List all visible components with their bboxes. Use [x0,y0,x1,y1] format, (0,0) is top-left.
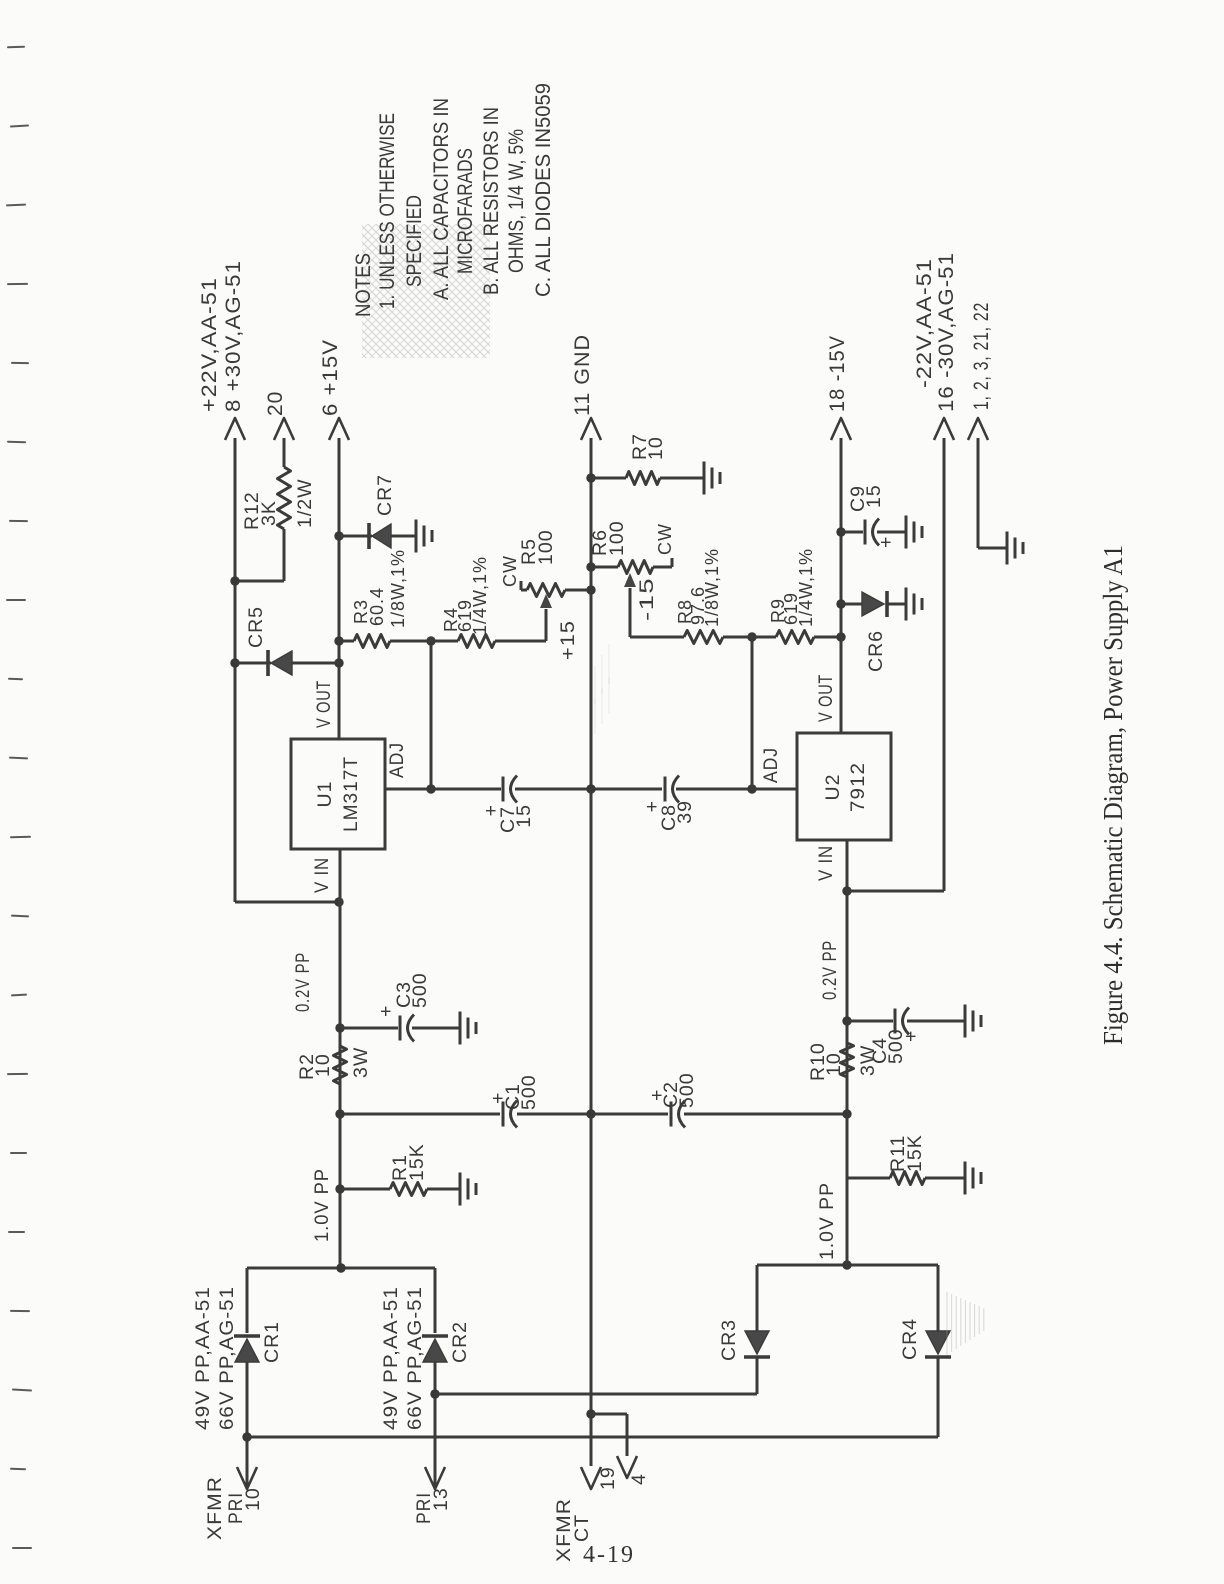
label +15 [557,620,579,660]
binder hole mark [7,283,28,286]
wire CR4 line [937,1265,940,1437]
svg-text:1/8W,1%: 1/8W,1% [388,549,408,628]
wire CR5 branch [235,662,339,665]
label R7 [629,433,667,460]
wire CR1-CR2 link [247,1267,435,1270]
wire CR2 to CR3 link [435,1393,757,1396]
node junction R1 [335,1184,344,1193]
svg-text:+15: +15 [557,620,579,660]
label C8 [641,800,696,831]
wire CR1 line [246,1268,249,1487]
label CR5 [245,606,267,648]
node junction R3R4 [426,636,435,645]
resistor R6 [618,561,653,574]
svg-text:16 -30V,AG-51: 16 -30V,AG-51 [935,252,958,412]
node junction C3 [335,1023,344,1032]
resistor R8 [684,631,723,644]
svg-text:CR2: CR2 [449,1321,471,1363]
op-amp U2 regulator box [797,733,891,840]
svg-text:-22V,AA-51: -22V,AA-51 [913,258,936,388]
svg-text:ADJ: ADJ [386,742,408,778]
label 20 [264,391,287,416]
svg-text:V IN: V IN [311,857,333,893]
label +22V,AA-51 [198,277,221,412]
svg-text:1. UNLESS OTHERWISE: 1. UNLESS OTHERWISE [376,113,399,309]
label C4 [869,1028,922,1064]
node junction C9 [836,527,845,536]
wire GND rail [590,438,593,1466]
svg-text:Figure 4.4. Schematic Diagram: Figure 4.4. Schematic Diagram, Power Sup… [1098,545,1128,1045]
label C3 [375,972,431,1017]
label note B line2 [505,129,528,273]
label R11 [887,1134,926,1172]
label -22V,AA-51 [913,258,936,388]
svg-text:0.2V PP: 0.2V PP [819,940,841,1000]
resistor R5 [527,584,565,597]
binder hole mark [7,46,25,49]
label NOTES title [352,253,375,317]
wire C1-C2 link [340,1113,847,1116]
resistor R4 [458,635,495,648]
svg-text:10: 10 [312,1053,334,1077]
terminal arrow PRI 10 [237,1467,257,1489]
svg-text:10: 10 [823,1052,845,1076]
svg-text:-15: -15 [636,577,658,621]
svg-text:19: 19 [597,1466,619,1490]
ground R11 [965,1162,981,1195]
label V OUT U2 [815,674,837,722]
svg-text:0.2V PP: 0.2V PP [292,952,314,1012]
node junction +22V/VIN link [334,897,343,906]
binder hole mark [8,678,23,681]
label R2 [296,1047,372,1080]
wire C3 branch [340,1027,460,1030]
binder hole mark [7,1073,28,1076]
svg-text:66V PP,AG-51: 66V PP,AG-51 [216,1286,238,1430]
label CR4 [899,1318,921,1360]
svg-text:15K: 15K [904,1134,926,1172]
node junction R5 GND [586,585,595,594]
ground R1 [460,1173,476,1206]
resistor R10 [841,1043,854,1077]
terminal arrow 20 [274,418,294,440]
scan streak artifact near CR4 [947,1292,984,1355]
wire CR3-CR4 link [757,1264,938,1267]
wire +15V V OUT rail [338,438,341,739]
diode CR6 [862,591,887,617]
svg-text:CW: CW [500,555,520,587]
label U2 [822,762,869,812]
svg-text:6 +15V: 6 +15V [319,339,342,416]
wire R3 leads [339,640,431,643]
capacitor C3 [400,1015,414,1042]
ground C9 [906,516,922,549]
node junction VIN2 corner [842,886,851,895]
binder hole mark [10,124,29,128]
wire -30V link [847,438,944,891]
svg-text:4: 4 [628,1473,650,1485]
svg-text:15: 15 [513,804,535,828]
svg-text:ADJ: ADJ [760,747,782,783]
wiper arrow R5 [540,594,552,608]
binder hole mark [10,836,31,839]
svg-text:U2: U2 [822,774,844,801]
resistor R7 [626,472,660,485]
binder hole mark [10,1468,26,1471]
svg-text:CR3: CR3 [718,1319,740,1361]
svg-text:+22V,AA-51: +22V,AA-51 [198,277,221,412]
label 11 GND [571,334,594,416]
label 8 +30V,AG-51 [222,260,245,412]
wire R6 wiper [630,588,684,637]
svg-text:1.0V PP: 1.0V PP [816,1182,838,1260]
terminal arrow 18 (-15V) [831,418,851,440]
capacitor C2 [671,1101,685,1128]
label 16 -30V,AG-51 [935,252,958,412]
terminal arrow 11 GND [581,418,601,440]
resistor R11 [890,1172,925,1185]
label -15 [636,577,658,621]
svg-text:CR4: CR4 [899,1318,921,1360]
label note A line2 [454,148,477,274]
svg-text:13: 13 [430,1487,452,1511]
resistor R12 [278,467,291,529]
wire tap 4 branch [591,1414,627,1456]
svg-text:1.0V PP: 1.0V PP [311,1168,333,1242]
svg-text:60.4: 60.4 [367,587,387,626]
ground C4 [965,1005,981,1038]
svg-text:3W: 3W [350,1047,372,1078]
binder hole mark [7,441,26,444]
svg-text:39: 39 [674,800,696,824]
svg-text:CR1: CR1 [261,1321,283,1363]
svg-text:500: 500 [409,972,431,1008]
label 18 -15V [826,335,849,412]
svg-text:OHMS, 1/4 W, 5%: OHMS, 1/4 W, 5% [505,129,528,273]
binder hole mark [12,1547,32,1549]
label XFMR CT 19 [553,1466,619,1562]
wire CR7 branch [339,535,416,538]
wire -V IN rail [846,840,849,1265]
label note B line1 [480,107,503,295]
svg-text:V IN: V IN [815,845,837,881]
op-amp U1 regulator box [291,739,385,849]
svg-text:C. ALL DIODES IN5059: C. ALL DIODES IN5059 [532,83,555,297]
svg-text:MICROFARADS: MICROFARADS [454,148,477,274]
terminal arrow XFMR CT 19 [581,1467,601,1489]
terminal arrow 16 (-30V) [934,418,954,440]
terminal arrow 6 (+15V) [329,418,349,440]
svg-text:49V PP,AA-51: 49V PP,AA-51 [192,1286,214,1430]
wire R8 lead [723,636,752,639]
svg-text:1/4W,1%: 1/4W,1% [470,556,490,635]
label CW R6 [655,523,675,555]
svg-text:3K: 3K [258,500,280,526]
node junction C4 [842,1016,851,1025]
node junction -rail/CR3-CR4 link [842,1260,851,1269]
label 0.2V PP positive [292,952,314,1012]
wire CR1 to CR4 link [247,1436,938,1439]
node junction ADJ2 [747,784,756,793]
wire R5 wiper [545,609,548,641]
ground terminal 1-22 [1007,532,1023,565]
svg-text:CR7: CR7 [374,474,396,516]
wire R5 leads [521,589,591,592]
label CR2 [449,1321,471,1363]
label R4 [441,556,490,635]
binder hole mark [8,1231,25,1233]
wire R12 to +22V rail [235,529,284,581]
svg-text:10: 10 [242,1487,264,1511]
wire U2 ADJ line [752,788,797,791]
label R8 [675,548,722,627]
node junction C2 bottom [842,1109,851,1118]
node junction R8R9 [747,632,756,641]
svg-text:+: + [875,536,897,548]
hatched patch behind notes [362,224,490,358]
label ADJ U2 [760,747,782,783]
diode CR3 [744,1331,770,1357]
wire CR2 line [434,1268,437,1487]
svg-text:XFMR: XFMR [204,1476,226,1540]
svg-text:1/8W,1%: 1/8W,1% [702,548,722,627]
wire ADJ2 to R8R9 [751,637,754,789]
node junction CR7 [334,531,343,540]
svg-text:V OUT: V OUT [815,674,837,722]
ground CR6 [906,588,922,621]
binder hole mark [12,1388,32,1391]
wire CR3 line [756,1265,759,1394]
svg-text:1, 2, 3, 21, 22: 1, 2, 3, 21, 22 [970,302,993,410]
terminal arrow 4 [617,1456,637,1478]
wire terminal 20 lead [283,438,286,467]
label 1.0V PP negative [816,1182,838,1260]
label R1 [389,1143,428,1181]
node junction ADJ1 [426,784,435,793]
wire R6 CW tick [671,558,674,567]
label CW R5 [500,555,520,587]
svg-text:1/4W,1%: 1/4W,1% [796,548,816,627]
node junction CR2/CR3 link [430,1389,439,1398]
wire R7 branch [591,477,704,480]
label V IN U2 [815,845,837,881]
node junction C7C8 GND [586,784,595,793]
node junction R12/+22V [230,576,239,585]
label C1 [487,1074,540,1110]
label 0.2V PP negative [819,940,841,1000]
svg-text:V OUT: V OUT [313,680,335,728]
binder hole mark [11,362,29,365]
capacitor C8 [665,776,679,803]
label PRI 13 [413,1487,452,1524]
svg-text:18 -15V: 18 -15V [826,335,849,412]
label R5 [518,529,557,565]
label PRI 10 [225,1487,264,1524]
svg-text:CW: CW [655,523,675,555]
svg-text:11 GND: 11 GND [571,334,594,416]
ground R7 [704,462,720,495]
svg-text:66V PP,AG-51: 66V PP,AG-51 [404,1286,426,1430]
wire R6 leads [591,566,672,569]
resistor R1 [390,1183,427,1196]
label C7 [480,804,535,833]
wire -15V rail [840,438,843,733]
label 1.0V PP positive [311,1168,333,1242]
svg-text:49V PP,AA-51: 49V PP,AA-51 [380,1286,402,1430]
wire R9 leads [752,636,841,639]
svg-text:20: 20 [264,391,287,416]
wire node A [430,641,433,789]
svg-text:LM317T: LM317T [340,756,362,832]
label V IN U1 [311,857,333,893]
svg-text:7912: 7912 [847,762,869,812]
label ADJ U1 [386,742,408,778]
node junction R9 rail [836,632,845,641]
node junction CT/tap4 [586,1409,595,1418]
svg-text:CR6: CR6 [865,630,887,672]
wire R11 branch [847,1177,965,1180]
svg-text:A. ALL CAPACITORS IN: A. ALL CAPACITORS IN [430,98,453,300]
page number [583,1542,635,1569]
terminal arrow 8 (+22V) [225,418,245,440]
node junction C1C2 mid GND [586,1109,595,1118]
diode CR2 [422,1336,448,1362]
label winding voltage CR2 [380,1286,426,1430]
label C2 [646,1072,698,1108]
label note 1 line2 [403,195,426,287]
label R10 [807,1042,879,1081]
svg-text:+: + [900,1030,922,1042]
node junction R6 GND [586,562,595,571]
node junction R3 top [334,636,343,645]
label CR7 [374,474,396,516]
diode CR1 [234,1336,260,1362]
svg-text:15K: 15K [406,1143,428,1181]
label C9 [847,484,897,548]
binder hole mark [10,1152,27,1155]
binder hole mark [10,1310,30,1313]
label note C [532,83,555,297]
ground CR7 [416,520,432,553]
svg-text:500: 500 [676,1072,698,1108]
diode CR7 [369,523,391,549]
svg-text:NOTES: NOTES [352,253,375,317]
wire C9 branch [841,531,906,534]
svg-text:CR5: CR5 [245,606,267,648]
capacitor C4 [895,1008,909,1035]
label figure caption [1098,545,1128,1045]
svg-text:8 +30V,AG-51: 8 +30V,AG-51 [222,260,245,412]
capacitor C9 [865,519,879,546]
capacitor C1 [503,1101,517,1128]
label R6 [589,520,628,556]
binder hole mark [11,994,27,997]
binder hole mark [11,915,29,918]
scan streak artifact near GND rail [595,644,609,734]
label CR1 [261,1321,283,1363]
binder hole mark [9,757,28,760]
svg-text:CT: CT [571,1514,593,1542]
label U1 [314,756,362,832]
wire CR6 branch [841,603,906,606]
svg-text:15: 15 [863,484,885,508]
label note 1 line1 [376,113,399,309]
svg-text:SPECIFIED: SPECIFIED [403,195,426,287]
node junction CR6 [836,599,845,608]
capacitor C7 [503,776,517,803]
label CR3 [718,1319,740,1361]
node junction C1 top [335,1109,344,1118]
label 1,2,3,21,22 [970,302,993,410]
ground C3 [460,1012,476,1045]
node junction VIN/CR1-CR2 link [336,1263,345,1272]
resistor R9 [776,631,814,644]
svg-text:10: 10 [645,436,667,460]
wire R1 branch [340,1188,460,1191]
label CR6 [865,630,887,672]
node junction R7 [586,473,595,482]
wire +22V rail drop to V IN rail [235,901,339,904]
terminal arrow PRI 13 [425,1467,445,1489]
label winding voltage CR1 [192,1286,238,1430]
wire terminal 1,2,3,21,22 [978,438,1007,548]
svg-text:1/2W: 1/2W [294,478,316,528]
resistor R2 [334,1046,347,1084]
label R3 [351,549,408,628]
wire C7 C8 link [431,788,752,791]
svg-text:100: 100 [606,520,628,556]
wire V IN rail [339,849,342,1268]
label XFMR [204,1476,226,1540]
resistor R3 [354,635,390,648]
wire R5 CW tick [520,581,523,590]
node junction CR1/bottom link [242,1432,251,1441]
label 6 +15V [319,339,342,416]
svg-text:B. ALL RESISTORS IN: B. ALL RESISTORS IN [480,107,503,295]
wire C4 branch [847,1020,965,1023]
binder hole mark [6,204,26,207]
node junction CR5 bottom [334,658,343,667]
diode CR4 [925,1331,951,1357]
wire +22V rail [234,438,237,902]
svg-text:500: 500 [518,1074,540,1110]
label R12 value [241,478,316,530]
label note A line1 [430,98,453,300]
label 4 [628,1473,650,1485]
terminal arrow 1,2,3,21,22 [968,418,988,440]
svg-text:U1: U1 [314,781,336,808]
binder hole mark [6,599,26,601]
wiper arrow R6 [624,573,636,587]
label V OUT U1 [313,680,335,728]
label R9 [768,548,816,627]
diode CR5 [268,650,292,676]
wire U1 ADJ line [385,788,431,791]
binder hole mark [9,520,28,523]
wire R4 leads [431,640,546,643]
svg-text:100: 100 [535,529,557,565]
node junction CR5 top [230,658,239,667]
